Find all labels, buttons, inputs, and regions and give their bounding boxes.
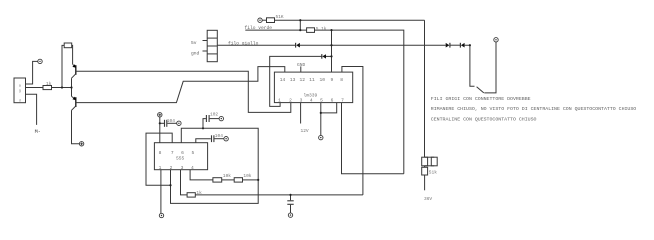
node C1 tap: [159, 122, 161, 124]
resistor R9 51k: [422, 167, 428, 175]
resistor R6 10k: [213, 178, 222, 182]
wire filo giallo mid: [300, 44, 446, 46]
555 pin numbers top: [159, 150, 195, 156]
resistor R8 parallel pair: [422, 157, 437, 167]
svg-text:10k: 10k: [223, 173, 231, 179]
wire pin7 loop left: [146, 133, 172, 185]
wire R1 to node: [52, 87, 72, 89]
svg-text:12: 12: [300, 77, 306, 83]
transistor Q2: [72, 96, 77, 110]
wire filo verde: [245, 29, 306, 31]
node pin9 giallo: [330, 44, 332, 46]
node C2 tap: [202, 127, 204, 129]
terminal circle right: [494, 38, 498, 42]
svg-text:8: 8: [159, 150, 162, 156]
terminal circle C4: [288, 213, 292, 217]
svg-text:3: 3: [300, 97, 303, 103]
svg-text:2: 2: [170, 165, 173, 171]
wire diode row to pin1: [270, 56, 322, 106]
svg-text:CENTRALINE CON QUESTOCONTATTO: CENTRALINE CON QUESTOCONTATTO CHIUSO: [431, 117, 537, 123]
wire pin7 down: [342, 103, 404, 174]
connector J1 pin marks: [19, 84, 22, 103]
svg-text:36V: 36V: [424, 196, 432, 202]
node pin9 diode: [330, 55, 332, 57]
plus terminal top: [158, 113, 162, 117]
svg-text:filo giallo: filo giallo: [228, 40, 259, 46]
plus terminal near Q2: [79, 142, 83, 146]
node pin5 link: [320, 112, 322, 114]
capacitor C4: [287, 195, 293, 213]
wire 555 pin1 to ground terminal: [160, 170, 162, 214]
svg-text:104: 104: [215, 133, 223, 139]
wire R9 to 36V: [424, 175, 426, 190]
wire Q1 bias loop: [62, 45, 64, 87]
wire switch right side: [484, 42, 496, 93]
resistor R4 5.1k: [307, 28, 315, 33]
svg-text:6: 6: [181, 150, 184, 156]
svg-text:9: 9: [331, 77, 334, 83]
gnd stub: [300, 66, 302, 72]
wire terminal to R3: [262, 19, 266, 21]
wire to switch: [465, 45, 475, 86]
node filo verde branch: [299, 29, 301, 31]
terminal circle top-left: [258, 18, 262, 22]
terminal circle C3: [224, 137, 228, 141]
svg-text:51K: 51K: [276, 14, 284, 20]
svg-text:10: 10: [320, 77, 326, 83]
IC U2 555: [154, 143, 207, 170]
wire 555 pin4 chain: [190, 170, 213, 180]
svg-text:g: g: [19, 90, 21, 94]
wire R5 to lm339 pin8: [195, 194, 363, 196]
555 pin numbers bottom: [159, 165, 194, 171]
svg-text:FILI GRIGI CON CONNETTORE DOVR: FILI GRIGI CON CONNETTORE DOVREBBE: [431, 96, 531, 102]
svg-text:2: 2: [289, 97, 292, 103]
wire gnd stub: [203, 50, 208, 52]
node R7 net: [257, 179, 259, 181]
wire pin9 vertical: [331, 30, 333, 72]
wire branch to filo verde: [299, 20, 301, 30]
wire R3 across top: [275, 19, 425, 21]
svg-text:filo verde: filo verde: [245, 25, 273, 31]
diode D1: [296, 43, 300, 48]
node loop pin2: [169, 184, 171, 186]
resistor R5 1k: [187, 193, 195, 197]
wire R7 to pin6 net: [243, 179, 259, 181]
wire J1 pin3 down: [26, 94, 37, 125]
wire top line down right side: [424, 20, 426, 157]
wire Q2 emitter to plus terminal: [72, 110, 80, 144]
connector J1 (left 3-pin): [14, 78, 26, 103]
wire filo giallo: [217, 44, 295, 46]
svg-text:GND: GND: [297, 62, 306, 68]
svg-text:7: 7: [341, 97, 344, 103]
svg-text:12V: 12V: [301, 128, 309, 134]
svg-text:5v: 5v: [191, 40, 197, 46]
node R1/loop: [61, 86, 63, 88]
svg-text:3: 3: [181, 165, 184, 171]
wire J1 pin1 to terminal: [26, 61, 38, 84]
svg-text:M-: M-: [35, 129, 41, 135]
svg-text:102: 102: [210, 111, 218, 117]
terminal inner marks: [39, 20, 496, 217]
wire pin5-pin6 link: [321, 103, 337, 113]
resistor R7 10k: [234, 178, 242, 182]
svg-text:5.1k: 5.1k: [316, 26, 327, 32]
diode D2: [322, 54, 326, 59]
wire pin3 12V: [300, 103, 302, 124]
svg-text:1: 1: [159, 165, 162, 171]
capacitor C1 104: [160, 120, 177, 127]
wire R6-R7: [222, 179, 235, 181]
svg-text:6: 6: [331, 97, 334, 103]
resistor R3 51K: [267, 18, 275, 23]
svg-text:51k: 51k: [429, 169, 437, 175]
svg-text:10k: 10k: [243, 173, 251, 179]
terminal circle pin5: [319, 135, 323, 139]
node switch corner: [469, 44, 471, 46]
switch blade: [477, 87, 484, 93]
wire pin8 loop: [342, 67, 363, 195]
terminal circle bottom left: [159, 213, 163, 217]
wire between diodes: [450, 44, 460, 46]
svg-text:1: 1: [278, 97, 281, 103]
terminal circle C1: [177, 121, 181, 125]
lm339 pin numbers bottom: [278, 97, 344, 103]
svg-text:d: d: [19, 99, 21, 104]
wire Q1 emitter to Q2: [71, 78, 73, 96]
diode D4: [460, 43, 464, 48]
wire Q2 base to lm339 pin14: [76, 67, 285, 103]
wire plus to pin8: [159, 117, 161, 143]
svg-text:5: 5: [320, 97, 323, 103]
svg-text:7: 7: [171, 150, 174, 156]
wire filo verde right: [315, 30, 404, 174]
note text: [431, 96, 637, 122]
svg-text:5: 5: [192, 150, 195, 156]
wire J1 pin2 to resistor: [26, 87, 44, 89]
diode D3: [446, 43, 450, 48]
svg-text:RIMANERE CHIUSO, NO VISTO FOTO: RIMANERE CHIUSO, NO VISTO FOTO DI CENTRA…: [431, 106, 637, 112]
node C4 tap: [289, 194, 291, 196]
capacitor C3 104: [196, 135, 224, 142]
svg-text:1k: 1k: [46, 81, 52, 87]
wire pin5 to terminal: [320, 103, 322, 136]
terminal circle C2: [219, 116, 223, 120]
wire 5v stub: [203, 40, 208, 42]
wire 555 pin3 out: [181, 170, 188, 195]
node 51K branch: [299, 19, 301, 21]
terminal circle left: [38, 59, 42, 63]
svg-text:104: 104: [167, 118, 175, 124]
svg-text:13: 13: [290, 77, 296, 83]
svg-text:4: 4: [310, 97, 313, 103]
resistor R2: [64, 43, 72, 48]
node Q1 emitter: [70, 86, 72, 88]
svg-text:11: 11: [309, 77, 315, 83]
transistor Q1: [72, 64, 77, 78]
wire D2 to pin9 line: [326, 55, 332, 57]
svg-text:14: 14: [280, 77, 286, 83]
lm339 pin numbers top: [280, 77, 343, 83]
svg-text:555: 555: [176, 155, 185, 161]
wire R2 to Q1: [71, 45, 74, 64]
wire Q1 base to lm339 pin2: [76, 71, 291, 112]
wire pin6 net: [171, 128, 259, 203]
svg-text:1k: 1k: [196, 190, 202, 196]
IC U1 lm339: [274, 72, 352, 103]
node pin9 verde: [330, 29, 332, 31]
svg-text:4: 4: [191, 165, 194, 171]
connector J2 (top 4-pin): [207, 30, 217, 61]
capacitor C2 102: [203, 115, 219, 128]
svg-text:8: 8: [340, 77, 343, 83]
resistor R1 1k: [43, 86, 52, 90]
svg-text:gnd: gnd: [191, 50, 200, 56]
